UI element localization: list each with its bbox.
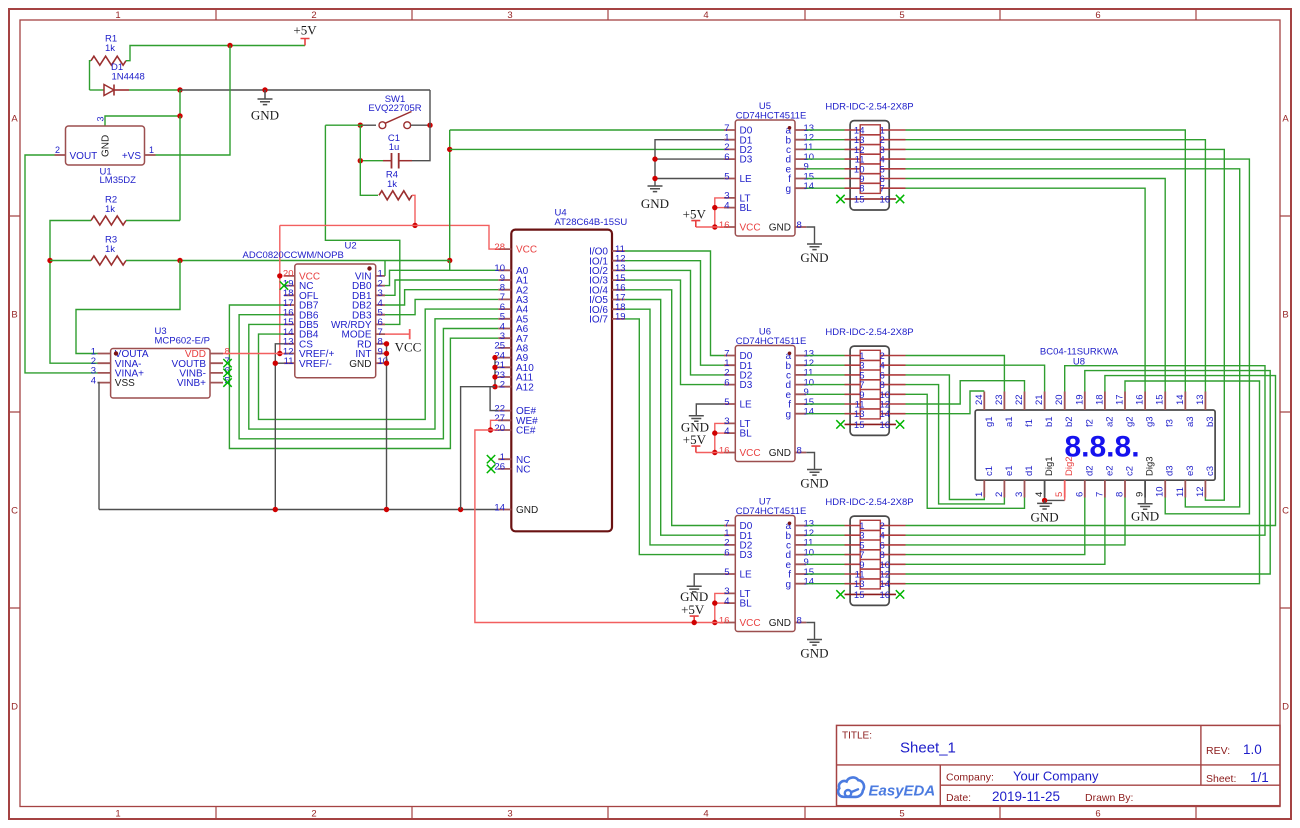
svg-text:GND: GND [800, 646, 828, 661]
svg-text:1: 1 [115, 10, 120, 21]
wire seg a1 [906, 356, 1005, 392]
wire VCC rail red [280, 225, 499, 249]
svg-text:16: 16 [719, 220, 730, 231]
svg-text:c3: c3 [1205, 466, 1216, 476]
svg-text:4: 4 [703, 10, 708, 21]
svg-text:f2: f2 [1084, 419, 1095, 427]
svg-text:A: A [1282, 113, 1289, 124]
wire seg e2 [906, 498, 1105, 565]
svg-text:5: 5 [724, 397, 729, 408]
IC U7 CD74HCT4511E [735, 516, 795, 632]
wire seg g2 [906, 381, 1260, 584]
wire seg e3 [906, 169, 1240, 507]
wire seg a2 [906, 376, 1276, 526]
U2 pin1 marker [367, 266, 371, 270]
svg-text:3: 3 [96, 116, 106, 121]
svg-text:1/1: 1/1 [1250, 770, 1269, 785]
svg-text:GND: GND [769, 223, 791, 234]
svg-text:Date:: Date: [946, 792, 971, 804]
svg-text:g: g [785, 409, 791, 420]
wire seg f1 [906, 381, 1025, 404]
svg-text:16: 16 [1135, 394, 1146, 405]
wire IO3 to U6 D3 [625, 280, 724, 385]
svg-text:d1: d1 [1024, 465, 1035, 476]
wire R2 right up [126, 220, 180, 222]
svg-text:GND: GND [1131, 509, 1159, 524]
svg-text:5: 5 [724, 171, 729, 182]
svg-text:D3: D3 [740, 550, 753, 561]
svg-text:16: 16 [880, 590, 891, 601]
wire IO4 to U7 D0 [625, 290, 724, 526]
svg-text:23: 23 [994, 394, 1005, 405]
svg-text:g2: g2 [1125, 416, 1136, 427]
svg-text:CD74HCT4511E: CD74HCT4511E [736, 336, 807, 347]
svg-text:4: 4 [1034, 492, 1045, 497]
svg-text:1: 1 [149, 145, 154, 155]
svg-text:VSS: VSS [115, 378, 135, 389]
svg-text:16: 16 [719, 615, 730, 626]
junction gnd tap [262, 87, 267, 92]
svg-text:14: 14 [804, 181, 815, 192]
svg-text:CD74HCT4511E: CD74HCT4511E [736, 111, 807, 122]
U7 VCC wire red to +5V [694, 622, 724, 624]
svg-text:+5V: +5V [681, 602, 705, 617]
svg-text:VOUT: VOUT [70, 151, 98, 162]
svg-text:13: 13 [854, 409, 865, 420]
header pin 15/16 row [845, 593, 897, 595]
svg-text:f1: f1 [1024, 419, 1035, 427]
svg-text:1k: 1k [105, 244, 115, 255]
svg-text:14: 14 [494, 502, 505, 513]
svg-text:Sheet_1: Sheet_1 [900, 740, 956, 757]
U2 RD/INT/GND ground wire [386, 344, 388, 510]
svg-text:A12: A12 [516, 382, 534, 393]
svg-text:1N4448: 1N4448 [112, 72, 145, 83]
svg-text:5: 5 [1054, 492, 1065, 497]
connector HDR-IDC-2.54-2X8P [850, 121, 889, 210]
svg-text:6: 6 [724, 547, 729, 558]
svg-text:GND: GND [101, 135, 112, 157]
svg-text:8.8.8.: 8.8.8. [1064, 431, 1139, 464]
svg-text:5: 5 [899, 10, 904, 21]
svg-text:3: 3 [507, 809, 512, 820]
svg-text:28: 28 [494, 242, 505, 253]
wire U2 DB6 loop to U4 A6 [239, 315, 498, 439]
svg-text:VINB+: VINB+ [177, 378, 206, 389]
svg-text:GND: GND [680, 589, 708, 604]
U6 GND elbow right [806, 453, 814, 470]
svg-text:14: 14 [804, 577, 815, 588]
svg-text:14: 14 [1175, 394, 1186, 405]
svg-text:MCP602-E/P: MCP602-E/P [155, 336, 210, 347]
U5 wires to header [806, 130, 844, 188]
EasyEDA logo [838, 777, 864, 796]
display U8 BC04-11SURKWA [975, 410, 1215, 480]
ground symbol near top [258, 90, 273, 105]
U2 VREF+ to VDD red [280, 353, 284, 355]
U5 LT/BL wire red [715, 198, 724, 227]
svg-text:26: 26 [494, 462, 505, 473]
svg-text:EasyEDA: EasyEDA [869, 783, 936, 800]
wire U1 VOUT to U3 VINA+ [25, 155, 98, 373]
svg-text:a2: a2 [1104, 416, 1115, 427]
wire SW1/C1 right side dark [412, 90, 430, 161]
U2 MODE to VCC stub [385, 333, 410, 335]
ground symbol U5 LE [648, 186, 663, 192]
header pin 15/16 row [845, 198, 897, 200]
svg-text:VCC: VCC [740, 448, 761, 459]
svg-text:11: 11 [284, 356, 294, 367]
resistor R1 [91, 56, 126, 65]
IC U3 MCP602-E/P [111, 349, 210, 399]
svg-text:8: 8 [797, 615, 802, 626]
svg-text:GND: GND [641, 196, 669, 211]
svg-text:19: 19 [1074, 394, 1085, 405]
svg-text:GND: GND [516, 505, 538, 516]
svg-text:3: 3 [507, 10, 512, 21]
svg-text:6: 6 [1095, 10, 1100, 21]
svg-text:Sheet:: Sheet: [1206, 773, 1236, 785]
wire IO2 to U6 D2 [625, 270, 724, 375]
wire seg c1 [906, 375, 985, 500]
wire R1 left to D1 anode [90, 61, 92, 90]
wire U2 DB4 loop to U4 A4 [259, 309, 499, 419]
svg-text:d2: d2 [1084, 465, 1095, 476]
svg-text:GND: GND [800, 250, 828, 265]
svg-text:20: 20 [494, 423, 505, 434]
svg-text:D: D [1282, 701, 1289, 712]
svg-text:2: 2 [311, 10, 316, 21]
U2 VIN wire up to A0 net [384, 261, 386, 276]
svg-text:b2: b2 [1064, 416, 1075, 427]
svg-text:+5V: +5V [683, 207, 707, 222]
wire IO0 to U6 D0 [625, 251, 724, 356]
svg-text:f3: f3 [1165, 419, 1176, 427]
wire U2 DB2 to U4 A2 [385, 290, 498, 305]
svg-text:2: 2 [994, 492, 1005, 497]
svg-text:VREF/-: VREF/- [299, 359, 332, 370]
U4 OE# ground wire [490, 387, 498, 411]
svg-text:BL: BL [740, 429, 753, 440]
wire dark gnd rail to SW1 [180, 89, 430, 91]
svg-text:GND: GND [1031, 510, 1059, 525]
svg-text:g3: g3 [1145, 416, 1156, 427]
resistor R3 [91, 256, 126, 265]
U6 LT/BL wire red [715, 423, 724, 452]
no-connect X U2 pin19 [280, 281, 288, 289]
svg-text:8: 8 [797, 445, 802, 456]
display Dig1 pin 4 and Dig3 pin 9 stubs [1045, 480, 1146, 497]
svg-text:16: 16 [719, 445, 730, 456]
svg-text:TITLE:: TITLE: [842, 731, 872, 742]
svg-text:VCC: VCC [740, 223, 761, 234]
svg-text:U2: U2 [345, 241, 357, 252]
+5V symbol U5 [691, 221, 700, 227]
no-connect X U4 NC pins [487, 455, 495, 463]
svg-text:4: 4 [703, 809, 708, 820]
svg-text:16: 16 [880, 420, 891, 431]
svg-text:+5V: +5V [683, 432, 707, 447]
svg-text:GND: GND [681, 419, 709, 434]
wire SW1-left down to R4 [360, 125, 378, 195]
wire seg d1 [906, 385, 1005, 504]
svg-text:1.0: 1.0 [1243, 742, 1262, 757]
IC U5 CD74HCT4511E [735, 120, 795, 236]
svg-text:b3: b3 [1205, 416, 1216, 427]
svg-text:g: g [785, 579, 791, 590]
wire SW1 left to net A [325, 124, 363, 126]
wire to U5 D0 [450, 129, 724, 131]
wire U1 VS to +5V rail [156, 46, 231, 156]
svg-text:GND: GND [800, 476, 828, 491]
wire U2 DB0 to A0 net [385, 270, 450, 285]
IC U6 CD74HCT4511E [735, 346, 795, 462]
svg-text:14: 14 [804, 407, 815, 418]
svg-text:a1: a1 [1004, 416, 1015, 427]
ground bus bottom [99, 509, 498, 511]
svg-text:BL: BL [740, 203, 753, 214]
svg-text:4: 4 [91, 375, 96, 386]
wire seg f3 [906, 179, 1166, 392]
svg-text:8: 8 [797, 220, 802, 231]
U6 wires to header [806, 356, 844, 414]
svg-text:c2: c2 [1125, 466, 1136, 476]
IC U4 AT28C64B-15SU [511, 230, 612, 532]
U7 LT/BL wire red [715, 593, 724, 622]
svg-text:ADC0820CCWM/NOPB: ADC0820CCWM/NOPB [243, 250, 344, 261]
wire VCC vertical to U2 [279, 225, 281, 353]
wire junction down to U1 gnd pin [105, 90, 180, 126]
svg-text:21: 21 [1034, 394, 1045, 405]
svg-text:LE: LE [740, 570, 753, 581]
svg-text:CE#: CE# [516, 426, 536, 437]
U2 CS/VREF- ground wire [275, 344, 284, 510]
wire seg a3 [906, 130, 1186, 392]
svg-text:C: C [1282, 505, 1289, 516]
U3 VDD red wire to U2 VREF+ [223, 353, 280, 355]
U6 VCC wire red to +5V [696, 452, 724, 454]
U5 D1/D3/LE ground wires [655, 140, 724, 186]
svg-text:1k: 1k [105, 43, 115, 54]
svg-text:8: 8 [859, 184, 864, 195]
svg-text:15: 15 [854, 590, 865, 601]
svg-text:LM35DZ: LM35DZ [100, 175, 137, 186]
svg-text:GND: GND [769, 618, 791, 629]
resistor R2 [91, 216, 126, 225]
wire U2 DB5 loop to U4 A5 [249, 319, 498, 429]
svg-text:24: 24 [974, 394, 985, 405]
svg-text:4: 4 [724, 596, 729, 607]
svg-text:D3: D3 [740, 380, 753, 391]
+5V power symbol top [301, 39, 310, 46]
svg-text:e3: e3 [1185, 465, 1196, 476]
svg-text:GND: GND [251, 108, 279, 123]
svg-text:15: 15 [854, 195, 865, 206]
svg-text:IO/7: IO/7 [589, 315, 608, 326]
junction R3/U3 VOUTA [177, 258, 182, 263]
svg-text:b1: b1 [1044, 416, 1055, 427]
svg-text:g1: g1 [984, 416, 995, 427]
svg-text:Your Company: Your Company [1013, 769, 1099, 784]
wire D1 cathode to junction [129, 89, 180, 91]
svg-text:Drawn By:: Drawn By: [1085, 792, 1133, 804]
wire net A down to WR/RDY [325, 125, 399, 324]
wire R1 right to +5V rail [126, 46, 305, 61]
wire to U5 D2 [450, 148, 724, 150]
svg-text:REV:: REV: [1206, 745, 1230, 757]
svg-text:D3: D3 [740, 155, 753, 166]
wire seg d2 [906, 498, 1085, 555]
junction A0 net [447, 258, 452, 263]
svg-text:+5V: +5V [293, 23, 317, 38]
svg-text:1: 1 [115, 809, 120, 820]
svg-text:15: 15 [1155, 394, 1166, 405]
svg-text:19: 19 [615, 312, 626, 323]
svg-text:BL: BL [740, 599, 753, 610]
svg-text:6: 6 [724, 377, 729, 388]
svg-text:6: 6 [1095, 809, 1100, 820]
svg-text:4: 4 [724, 200, 729, 211]
wire U2 DB3 to U4 A3 [385, 299, 498, 314]
wire seg c2 [906, 498, 1126, 545]
svg-text:c1: c1 [984, 466, 995, 476]
IC U1 LM35DZ [66, 126, 145, 165]
display Dig2 pin 5 stub red [1064, 480, 1066, 497]
svg-text:20: 20 [1054, 394, 1065, 405]
wire C1 left [360, 160, 383, 162]
U3 pin1 marker [114, 351, 118, 355]
svg-text:16: 16 [880, 195, 891, 206]
display Dig1/Dig2 ground [1044, 498, 1046, 501]
svg-text:1: 1 [974, 492, 985, 497]
svg-text:14: 14 [880, 579, 891, 590]
junction SW1 left [358, 123, 363, 128]
wire IO7 to U7 D3 [625, 319, 724, 555]
wire R2 left down to U3 VINA- [50, 221, 98, 364]
svg-text:1k: 1k [387, 179, 397, 190]
wire U2 DB1 to U4 A1 [385, 280, 498, 295]
svg-text:VCC: VCC [740, 618, 761, 629]
svg-text:LE: LE [740, 174, 753, 185]
display Dig3 ground [1144, 498, 1146, 504]
wire seg g1 [906, 391, 985, 414]
svg-text:VCC: VCC [395, 340, 422, 355]
wire R4 to VCC rail red [412, 195, 415, 225]
svg-text:1k: 1k [105, 204, 115, 215]
wire R3 right to U2 VIN net [126, 260, 385, 262]
svg-text:e2: e2 [1104, 465, 1115, 476]
title block [837, 725, 1281, 805]
svg-text:GND: GND [349, 359, 371, 370]
svg-text:LE: LE [740, 400, 753, 411]
U5 VCC wire red to +5V [696, 226, 724, 228]
connector HDR-IDC-2.54-2X8P [850, 516, 889, 605]
svg-text:EVQ22705R: EVQ22705R [368, 103, 421, 114]
svg-text:CD74HCT4511E: CD74HCT4511E [736, 506, 807, 517]
wire IO6 to U7 D2 [625, 309, 724, 545]
svg-text:4: 4 [724, 426, 729, 437]
svg-text:9: 9 [1135, 492, 1146, 497]
svg-text:18: 18 [1094, 394, 1105, 405]
wire seg b2 [906, 366, 1266, 536]
U3 VSS ground wire [98, 383, 100, 510]
IC U2 ADC0820CCWM/NOPB [295, 264, 376, 378]
svg-text:3: 3 [1014, 492, 1025, 497]
connector HDR-IDC-2.54-2X8P [850, 346, 889, 435]
U6 LE ground wire [696, 404, 724, 416]
U5 GND elbow right [806, 227, 814, 244]
svg-text:13: 13 [1195, 394, 1206, 405]
svg-text:Company:: Company: [946, 772, 994, 784]
svg-text:6: 6 [1074, 492, 1085, 497]
svg-text:6: 6 [724, 152, 729, 163]
svg-text:C: C [11, 505, 18, 516]
svg-text:5: 5 [899, 809, 904, 820]
junction +5V rail / U1 VS [227, 43, 232, 48]
wire IO1 to U6 D1 [625, 261, 724, 366]
svg-text:HDR-IDC-2.54-2X8P: HDR-IDC-2.54-2X8P [825, 327, 913, 338]
+5V symbol U6 [691, 446, 700, 452]
svg-text:g: g [785, 184, 791, 195]
wire seg e1 [906, 394, 1025, 508]
svg-text:VCC: VCC [516, 245, 537, 256]
svg-text:17: 17 [1115, 394, 1126, 405]
svg-text:8: 8 [1115, 492, 1126, 497]
wire seg d3 [906, 159, 1250, 514]
svg-text:HDR-IDC-2.54-2X8P: HDR-IDC-2.54-2X8P [825, 102, 913, 113]
wire seg f2 [906, 371, 1271, 574]
svg-text:B: B [11, 309, 17, 320]
svg-text:2019-11-25: 2019-11-25 [992, 789, 1060, 804]
svg-text:HDR-IDC-2.54-2X8P: HDR-IDC-2.54-2X8P [825, 497, 913, 508]
svg-text:2: 2 [311, 809, 316, 820]
junction R4/VCC rail [412, 223, 417, 228]
U7 LE ground wire [694, 574, 724, 586]
svg-text:11: 11 [1175, 487, 1186, 497]
wire seg g3 [906, 188, 1146, 391]
svg-text:Dig3: Dig3 [1145, 456, 1156, 476]
U4 WE#/CE# red wire to U7 VCC [491, 420, 499, 430]
svg-text:e1: e1 [1004, 465, 1015, 476]
svg-text:AT28C64B-15SU: AT28C64B-15SU [555, 217, 628, 228]
resistor R4 1k [379, 191, 412, 200]
U7 GND elbow right [806, 623, 814, 640]
svg-text:12: 12 [1195, 486, 1206, 497]
svg-text:22: 22 [1014, 394, 1025, 405]
svg-text:A: A [11, 113, 18, 124]
svg-text:7: 7 [1094, 492, 1105, 497]
junction SW1 right [427, 123, 432, 128]
svg-text:7: 7 [880, 184, 885, 195]
svg-text:2: 2 [500, 380, 505, 391]
svg-text:10: 10 [1155, 486, 1166, 497]
header pin 15/16 row [845, 423, 897, 425]
svg-text:Dig1: Dig1 [1044, 456, 1055, 476]
svg-text:B: B [1282, 309, 1288, 320]
svg-text:14: 14 [880, 409, 891, 420]
+5V symbol U7 [690, 616, 699, 622]
wire seg c3 [906, 149, 1225, 500]
no-connect X U3 right pins [223, 359, 231, 367]
svg-text:15: 15 [854, 420, 865, 431]
svg-text:2: 2 [55, 145, 60, 155]
svg-text:D: D [11, 701, 18, 712]
wire U2 DB7 loop to U4 A7 [229, 305, 498, 449]
U4 A9-A12 tie to ground [494, 358, 496, 387]
svg-text:+VS: +VS [122, 151, 142, 162]
svg-text:5: 5 [724, 567, 729, 578]
junction R2/R3 node [47, 258, 52, 263]
